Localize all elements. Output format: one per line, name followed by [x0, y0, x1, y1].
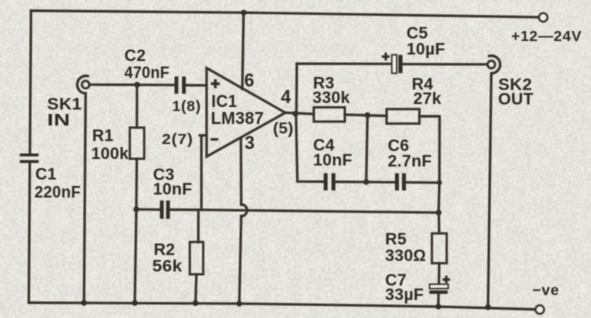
- node SK1 bottom rail: [81, 300, 87, 306]
- node R1/C3: [133, 206, 139, 212]
- wire node to R5: [438, 213, 441, 234]
- svg-text:2(7): 2(7): [162, 132, 194, 148]
- wire output node down to C4: [296, 114, 323, 182]
- C7 + sign: [443, 276, 451, 284]
- svg-text:IN: IN: [47, 112, 70, 130]
- svg-text:4: 4: [281, 87, 291, 107]
- pin 6 wire (top rail to op-amp): [242, 13, 243, 89]
- wire C7 to bottom rail: [437, 294, 440, 307]
- left border wire upper (top rail to C1): [30, 11, 31, 154]
- jack SK2: [488, 56, 501, 307]
- svg-text:+12—24V: +12—24V: [511, 28, 582, 45]
- svg-text:1(8): 1(8): [172, 99, 201, 115]
- wire SK1 to C2: [89, 83, 174, 86]
- svg-text:C2: C2: [124, 47, 145, 65]
- op-amp + sign: [211, 79, 220, 88]
- svg-text:−ve: −ve: [532, 282, 559, 299]
- svg-text:C1: C1: [35, 166, 57, 184]
- C5 + sign: [382, 53, 390, 61]
- +12-24V terminal: [539, 13, 547, 21]
- wire C6 to right vertical: [406, 181, 439, 184]
- svg-text:C5: C5: [407, 24, 429, 42]
- wire C5 to SK2: [403, 63, 488, 66]
- lower feedback wire (C3 node to R5 node): [198, 210, 438, 213]
- wire C4 to C4/C6 node: [336, 181, 367, 184]
- svg-text:R5: R5: [385, 231, 407, 249]
- capacitor C6: [395, 173, 406, 190]
- wire op-amp output pin 4: [285, 113, 314, 114]
- wire R1 to C3 node: [135, 159, 138, 210]
- wire R2 to bottom rail: [194, 275, 197, 304]
- svg-text:330Ω: 330Ω: [385, 247, 426, 265]
- op-amp IC1 triangle: [207, 68, 286, 157]
- wire C2 to op-amp + input: [186, 84, 207, 87]
- svg-text:27k: 27k: [413, 90, 442, 108]
- node pin6 top rail: [241, 10, 247, 16]
- resistor R2: [190, 242, 203, 274]
- svg-text:10nF: 10nF: [313, 151, 352, 169]
- capacitor C4: [324, 173, 336, 190]
- wire C3 to R2 cross node: [170, 208, 198, 211]
- wire R3/R4 node down to C4/C6 node: [366, 115, 367, 182]
- pin 3 wire hop over feedback wire: [241, 204, 247, 216]
- capacitor C3: [160, 201, 170, 219]
- resistor R4: [387, 109, 420, 124]
- -ve terminal: [536, 305, 544, 313]
- wire R4 right corner down: [419, 116, 439, 212]
- resistor R3: [314, 107, 345, 121]
- wire R1 node to bottom rail: [135, 209, 137, 302]
- capacitor C5 (electrolytic): [392, 55, 403, 73]
- wire R2 top: [197, 210, 200, 242]
- capacitor C2: [175, 77, 186, 94]
- left border wire lower (C1 to bottom rail): [29, 163, 30, 303]
- wire cross node up to op-amp - input: [199, 135, 206, 209]
- node junction SK1/R1: [134, 82, 140, 88]
- pin 3 wire lower (hop to bottom rail): [239, 216, 241, 304]
- svg-text:33µF: 33µF: [385, 286, 424, 304]
- svg-text:10µF: 10µF: [407, 41, 446, 59]
- node pin3 bottom rail: [236, 301, 242, 307]
- wire junction down to R1: [136, 85, 139, 128]
- svg-text:3: 3: [245, 133, 255, 153]
- node R1 bottom rail: [132, 300, 138, 306]
- pin 3 wire upper (op-amp to hop): [240, 138, 243, 205]
- svg-text:R2: R2: [154, 241, 176, 259]
- svg-text:6: 6: [244, 70, 254, 90]
- node C6 right vertical: [437, 180, 442, 185]
- jack SK1: [77, 76, 89, 303]
- capacitor C1: [20, 154, 39, 164]
- svg-text:(5): (5): [273, 121, 294, 138]
- node C4/C6 vertical: [363, 179, 369, 185]
- wire output node up and right to C5: [296, 64, 391, 114]
- svg-text:R1: R1: [92, 127, 114, 145]
- wire node to C6: [366, 181, 395, 184]
- svg-text:330k: 330k: [313, 89, 351, 107]
- wire R5 to C7: [438, 263, 441, 284]
- top supply rail: [31, 11, 539, 18]
- node C7 bottom rail: [435, 304, 441, 310]
- svg-text:220nF: 220nF: [35, 184, 81, 202]
- node R2 bottom rail: [193, 300, 199, 306]
- svg-text:100k: 100k: [91, 145, 129, 163]
- node output: [293, 111, 299, 117]
- node lower feedback / R5: [436, 210, 442, 216]
- capacitor C7 (electrolytic): [429, 284, 448, 294]
- svg-text:10nF: 10nF: [153, 181, 192, 199]
- bottom supply rail: [29, 303, 536, 310]
- svg-text:OUT: OUT: [498, 91, 533, 109]
- wire node to C3: [136, 208, 159, 211]
- resistor R5: [432, 233, 447, 263]
- wire R3 to R4: [345, 115, 387, 116]
- node SK2 bottom rail: [485, 304, 491, 310]
- svg-text:LM387: LM387: [211, 108, 264, 128]
- resistor R1: [130, 128, 144, 159]
- op-amp - sign: [211, 138, 219, 141]
- svg-text:2.7nF: 2.7nF: [388, 153, 432, 171]
- svg-text:470nF: 470nF: [124, 64, 169, 82]
- svg-text:56k: 56k: [152, 258, 183, 276]
- node R3/R4: [365, 112, 371, 118]
